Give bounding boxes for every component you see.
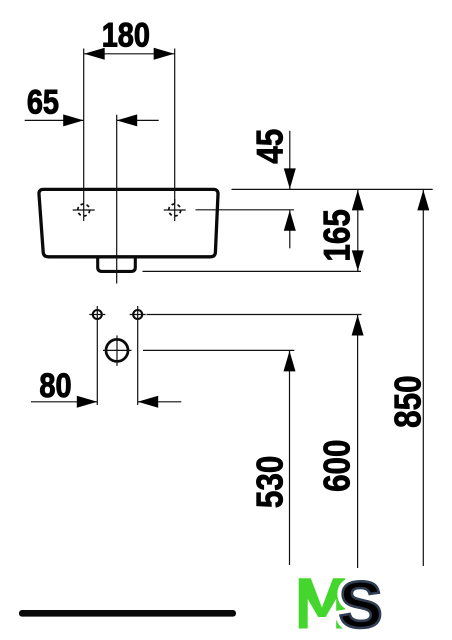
drain extension line right xyxy=(143,270,362,272)
logo letter M (green) xyxy=(299,578,346,628)
svg-text:45: 45 xyxy=(250,129,291,164)
mounting circle xyxy=(103,335,132,366)
mounting circle extension line right xyxy=(143,349,294,351)
svg-text:165: 165 xyxy=(317,209,358,261)
wall holes extension line right xyxy=(147,314,362,316)
faucet hole left (dashed circle) xyxy=(73,204,95,216)
extension line wall hole left vertical xyxy=(96,306,98,405)
dimension 45 line xyxy=(284,131,296,249)
small wall hole right xyxy=(130,310,146,319)
svg-text:80: 80 xyxy=(39,366,71,405)
svg-text:600: 600 xyxy=(317,439,358,491)
extension line right hole vertical xyxy=(174,49,176,204)
drain outlet tab xyxy=(98,258,136,271)
svg-text:850: 850 xyxy=(388,375,429,427)
center line vertical xyxy=(116,115,118,284)
dimension 600 line xyxy=(352,315,364,569)
washbasin body outline xyxy=(39,189,218,256)
dimension 530 line xyxy=(284,350,296,565)
dimension 80 line xyxy=(31,396,181,408)
faucet hole extension line right xyxy=(196,209,294,211)
rim extension line right xyxy=(232,188,433,190)
dimension 180 line xyxy=(84,48,175,60)
faucet hole right (dashed circle) xyxy=(164,199,186,221)
svg-text:S: S xyxy=(339,568,383,640)
logo letter S (navy with white halo) xyxy=(339,568,383,640)
dimension 850 line xyxy=(417,189,429,566)
logo white backdrop xyxy=(260,568,452,640)
extension line wall hole right vertical xyxy=(137,306,139,405)
extension line left hole vertical xyxy=(83,49,85,222)
small wall hole left xyxy=(89,310,105,319)
dimension 165 line xyxy=(352,189,364,271)
svg-text:65: 65 xyxy=(27,82,59,121)
svg-text:180: 180 xyxy=(102,15,150,54)
dimension 65 line xyxy=(25,114,159,126)
floor line xyxy=(19,610,236,617)
svg-text:530: 530 xyxy=(250,456,291,508)
